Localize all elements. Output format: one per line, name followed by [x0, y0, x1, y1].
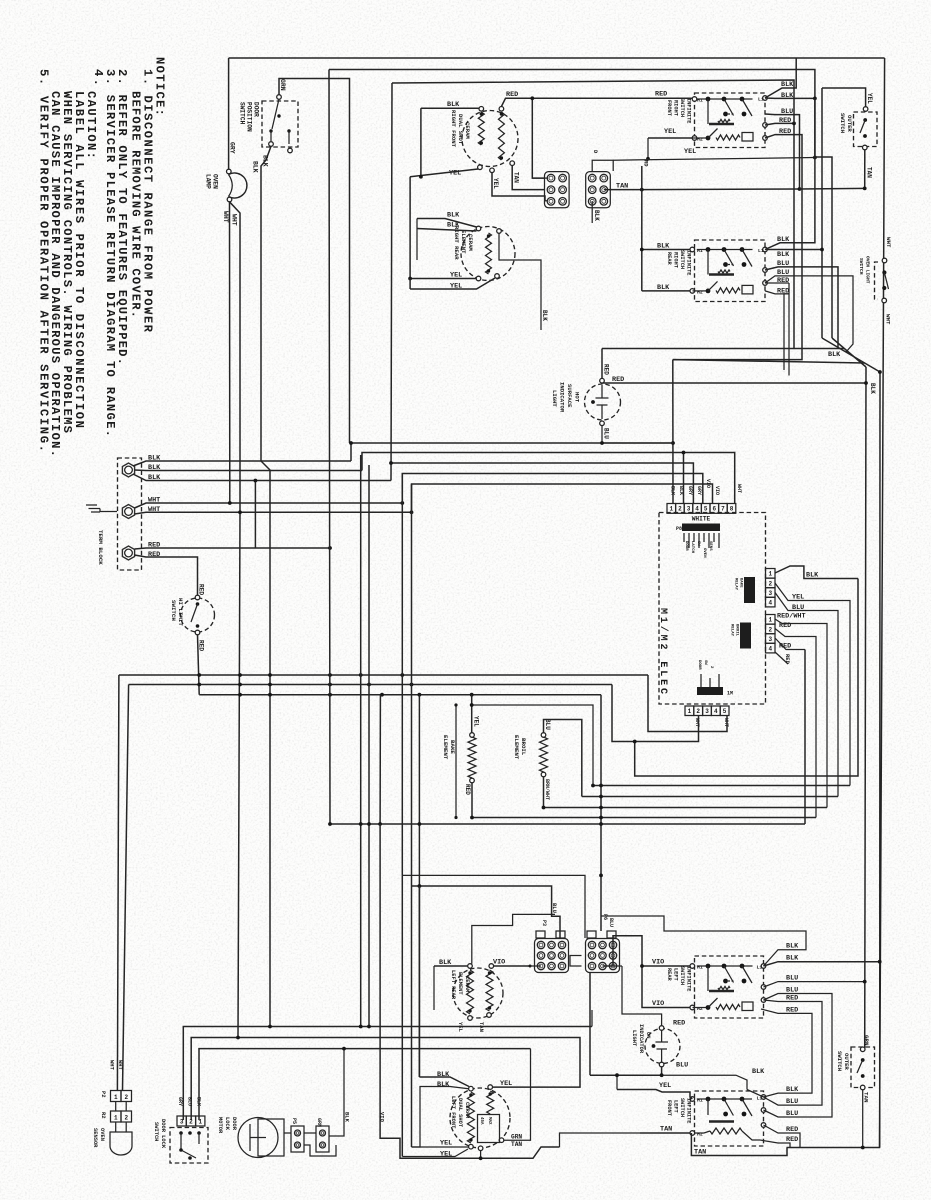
wire VIO to INF LR H2	[642, 966, 690, 1008]
wire hot-ind top Y348	[602, 348, 844, 350]
bake element terminals	[470, 733, 475, 738]
wire vertical X360 down	[360, 455, 362, 1027]
svg-text:CERAM: CERAM	[467, 234, 474, 251]
svg-text:INDICATOR: INDICATOR	[559, 382, 566, 413]
oven sensor body	[110, 1132, 132, 1155]
svg-text:P3: P3	[541, 920, 547, 926]
svg-text:TAN: TAN	[511, 1141, 522, 1148]
motor connector pair 2	[316, 1126, 329, 1152]
wire motor wires	[284, 1132, 291, 1134]
svg-text:3: 3	[768, 636, 772, 643]
svg-text:2: 2	[678, 506, 682, 513]
svg-text:LOCK: LOCK	[224, 1117, 230, 1131]
wire bus to lamp	[228, 58, 230, 169]
svg-text:5: 5	[704, 506, 708, 513]
svg-text:BLK: BLK	[786, 955, 799, 963]
svg-text:DOOR: DOOR	[697, 660, 701, 670]
wire INF LR BLU2	[764, 994, 833, 1047]
svg-text:LAMP: LAMP	[205, 174, 212, 189]
wire right vertical X880 down	[879, 372, 881, 1148]
svg-text:YEL: YEL	[473, 716, 480, 727]
svg-text:YEL: YEL	[457, 1022, 464, 1033]
svg-text:GRY: GRY	[687, 486, 693, 495]
hot indicator terminals	[600, 378, 605, 383]
svg-text:RED: RED	[784, 654, 791, 665]
svg-text:1: 1	[114, 1114, 118, 1121]
wire BLK1 elem RR	[417, 219, 477, 228]
wire BLK elem LR	[434, 965, 468, 967]
wire Y886 line	[412, 886, 561, 938]
svg-text:BLK: BLK	[786, 1086, 799, 1094]
connector grid 1 bottom	[535, 939, 569, 973]
svg-text:DOOR: DOOR	[231, 1117, 237, 1131]
svg-text:1: 1	[669, 506, 673, 513]
svg-text:BROIL: BROIL	[520, 738, 527, 756]
svg-text:VIO: VIO	[652, 959, 664, 967]
svg-text:RED: RED	[777, 277, 789, 285]
wire door-lock run3	[199, 1049, 531, 1120]
junction dots nested	[599, 784, 603, 788]
svg-text:RED: RED	[786, 1006, 798, 1014]
wire WHT1 from bolt2	[135, 503, 403, 508]
wire grid A row1 entry	[532, 177, 548, 179]
svg-text:YEL: YEL	[659, 1082, 671, 1090]
wire BLK2 elem LF	[412, 1087, 469, 1148]
svg-text:CERAM: CERAM	[464, 1102, 470, 1118]
svg-text:RED: RED	[603, 364, 610, 375]
svg-text:MOTOR: MOTOR	[217, 1117, 223, 1134]
wire on-ind top RED	[622, 966, 662, 1026]
wire bottom pin5 loop	[648, 675, 727, 732]
svg-text:HOT: HOT	[574, 392, 581, 403]
svg-text:RED: RED	[198, 584, 205, 595]
element RF coils	[478, 112, 484, 145]
svg-text:BLK: BLK	[148, 464, 161, 472]
svg-text:ELEMENT: ELEMENT	[442, 735, 449, 760]
R2 connector	[111, 1111, 122, 1122]
svg-text:INFINITE: INFINITE	[686, 966, 692, 991]
svg-text:4: 4	[695, 506, 699, 513]
svg-text:LEFT FRONT: LEFT FRONT	[450, 1096, 456, 1129]
motor connector pair 1	[291, 1126, 304, 1152]
svg-text:L1: L1	[758, 248, 764, 254]
svg-text:2: 2	[124, 1094, 128, 1101]
svg-text:WHT: WHT	[109, 1060, 116, 1071]
wire BLK to INF SW RR H1	[642, 249, 691, 251]
svg-text:8: 8	[730, 506, 734, 513]
wire INF RF RED2	[673, 135, 802, 360]
wire VIO elem LR to grid1	[494, 965, 530, 967]
svg-text:TAN: TAN	[866, 167, 873, 178]
svg-text:YEL: YEL	[684, 148, 696, 156]
svg-text:ELEMENT: ELEMENT	[460, 230, 467, 254]
wire vertical X402 down to Y875	[401, 474, 403, 876]
wire bundle L3 Y463 from bus3	[391, 83, 392, 481]
element LF terminals	[469, 1086, 474, 1091]
svg-text:3: 3	[180, 1118, 184, 1125]
svg-text:YEL: YEL	[440, 1140, 452, 1148]
wire vertical X330 bus2 down	[329, 70, 330, 825]
svg-text:RED: RED	[464, 784, 471, 795]
wire YEL H1 stub to BLK line	[616, 1075, 618, 1089]
svg-text:SWITCH: SWITCH	[858, 258, 864, 275]
hot indicator internals	[601, 385, 603, 398]
svg-text:GRN: GRN	[863, 1035, 870, 1046]
ON indicator internals	[661, 1030, 663, 1042]
svg-text:WHT: WHT	[885, 237, 892, 248]
connector bottom pin row	[685, 706, 694, 716]
svg-text:BLK: BLK	[148, 474, 161, 482]
broil element terminals	[541, 733, 546, 738]
svg-text:LIGHT: LIGHT	[631, 1030, 637, 1047]
wire K2 RED diag down	[775, 652, 788, 664]
junction dots bundle	[349, 441, 353, 445]
wire RED1 from bolt3	[135, 548, 331, 549]
svg-text:DOOR: DOOR	[684, 541, 688, 551]
svg-text:BLU: BLU	[676, 1061, 688, 1069]
wire YEL elem RF vertical to right-rear	[409, 177, 411, 280]
wire drop pin1	[672, 360, 674, 504]
svg-text:DUAL SHOT: DUAL SHOT	[457, 1098, 463, 1128]
svg-text:RED: RED	[786, 1126, 798, 1134]
svg-text:OUTER: OUTER	[846, 115, 853, 132]
wire K2 RED2	[775, 638, 805, 650]
svg-text:POSITION: POSITION	[246, 102, 253, 132]
wire BLK3 from bolt1	[133, 474, 391, 481]
wire WHT2 from bolt2	[135, 512, 412, 514]
wire YEL2 elem RF to grid	[492, 173, 545, 201]
svg-text:BLU: BLU	[781, 108, 793, 116]
svg-text:VIO: VIO	[379, 1112, 386, 1123]
ON indicator light circle	[645, 1029, 680, 1064]
svg-text:BLK: BLK	[148, 455, 161, 463]
wire Y875 line	[402, 875, 585, 938]
outer switch bottom terminals	[860, 1047, 865, 1052]
svg-text:BLK: BLK	[437, 1081, 450, 1089]
wire line3 sag to X593	[600, 695, 602, 931]
svg-text:RIGHT: RIGHT	[673, 252, 679, 269]
svg-text:2: 2	[124, 1114, 128, 1121]
svg-text:1M: 1M	[727, 691, 733, 697]
svg-text:SW: SW	[703, 660, 707, 665]
terminal block bolt 2	[122, 505, 134, 519]
wire left vertical X118.9 (line1 start) down to oven sensor	[117, 675, 119, 1090]
svg-text:3: 3	[705, 708, 709, 715]
oven lamp symbol	[229, 173, 247, 198]
wire Y807 line	[544, 807, 828, 809]
svg-text:4: 4	[768, 600, 772, 607]
svg-text:BLK: BLK	[196, 1097, 202, 1106]
wire door-lock run2	[191, 1038, 580, 1121]
svg-text:LEFT REAR: LEFT REAR	[450, 970, 456, 1000]
svg-text:ELEMENT: ELEMENT	[513, 735, 520, 760]
wire TAN elem RF to grid	[512, 166, 545, 190]
wire BLK2 elem RR	[417, 229, 477, 232]
svg-text:6: 6	[712, 506, 716, 513]
svg-text:3: 3	[687, 506, 691, 513]
junction dots mid bus	[197, 673, 201, 677]
wire grid B bottom down	[591, 201, 593, 223]
INF SW LR contacts and heater	[697, 965, 753, 967]
svg-text:BRN/WHT: BRN/WHT	[544, 779, 550, 800]
svg-text:RED: RED	[779, 622, 791, 630]
svg-text:BLU: BLU	[786, 975, 798, 983]
svg-text:OVEN: OVEN	[212, 174, 219, 189]
wire INF RR BLU2	[765, 276, 853, 352]
svg-text:7: 7	[721, 506, 725, 513]
svg-text:BLK: BLK	[541, 310, 548, 321]
wire K2 RED/WHT	[775, 619, 827, 808]
svg-text:BLK: BLK	[781, 81, 794, 89]
wire vertical X402 to bottom	[401, 875, 403, 1156]
wire BLK elem RR right side down	[499, 233, 541, 330]
infinite switch LEFT REAR box	[695, 956, 764, 1018]
svg-text:BLK: BLK	[828, 351, 841, 359]
wire broil top loop	[544, 720, 582, 797]
svg-text:GRN: GRN	[316, 1118, 322, 1127]
svg-text:SENS: SENS	[708, 541, 712, 551]
wire vertical X419 to left-front elem	[418, 886, 420, 1077]
relay pins P5 column	[766, 615, 776, 625]
svg-text:OUTER: OUTER	[843, 1053, 850, 1070]
wire K1 BLU	[775, 593, 838, 797]
wire motor pair2 BLK up	[329, 1049, 344, 1136]
INF SW RR pins	[690, 247, 695, 252]
svg-text:BLK: BLK	[437, 1071, 450, 1079]
element RF terminals	[479, 107, 484, 112]
terminal block bolt 3	[122, 546, 134, 560]
wire P2 to R2	[115, 1102, 117, 1112]
svg-text:2: 2	[768, 580, 772, 587]
connector grid B top	[586, 172, 611, 208]
svg-text:2: 2	[189, 1118, 193, 1125]
svg-text:SENSOR: SENSOR	[92, 1128, 98, 1148]
svg-text:RED: RED	[655, 91, 667, 99]
svg-text:WHT: WHT	[148, 497, 160, 505]
wire YEL elem RF line	[410, 169, 478, 177]
svg-text:RED: RED	[779, 643, 791, 651]
ceram element RIGHT REAR circle	[461, 227, 515, 281]
wire lamp to WHT verticals	[229, 202, 231, 503]
svg-text:BLU: BLU	[187, 1097, 193, 1106]
svg-text:GRY: GRY	[696, 486, 702, 495]
wire INF LR BLK2	[764, 962, 880, 966]
svg-text:TAN: TAN	[694, 1149, 706, 1157]
svg-text:P8: P8	[676, 526, 682, 532]
wire door switch GRN to bus	[279, 79, 350, 444]
wire YEL1 elem LF bottom	[412, 1146, 469, 1148]
svg-text:VIO: VIO	[705, 479, 711, 488]
wire right border (BLK) down to bottom-right	[787, 58, 885, 1148]
hot surface indicator light circle	[585, 384, 621, 420]
svg-text:OVEN LIGHT: OVEN LIGHT	[865, 256, 871, 284]
wire vertical X270 down	[261, 461, 270, 1027]
svg-text:RED: RED	[779, 128, 791, 136]
svg-text:BLU: BLU	[786, 1110, 798, 1118]
INF SW LF contacts and heater	[697, 1098, 752, 1100]
hi limit switch circle	[181, 598, 215, 632]
svg-text:2: 2	[768, 626, 772, 633]
svg-text:BLK: BLK	[678, 486, 684, 495]
wire INF LR BLU1	[764, 982, 865, 987]
svg-text:SWITCH: SWITCH	[679, 966, 685, 985]
door lock switch contacts	[179, 1131, 183, 1135]
wire INF RR RED1	[765, 282, 789, 284]
wire X592 to run1	[591, 1010, 593, 1027]
connector grid A top	[545, 172, 570, 208]
ceram element LEFT REAR circle	[453, 968, 503, 1018]
svg-text:YEL: YEL	[866, 93, 873, 104]
wire X601 into grid2	[599, 874, 603, 878]
svg-text:RED/WHT: RED/WHT	[777, 613, 806, 621]
svg-text:SWITCH: SWITCH	[839, 113, 846, 133]
wire YEL to INF RF H2	[648, 137, 692, 139]
svg-text:BLK: BLK	[781, 92, 794, 100]
wire bake top to line3	[471, 695, 473, 733]
bake element coil	[468, 737, 476, 778]
svg-text:SWITCH: SWITCH	[679, 98, 685, 117]
oven light switch bracket	[875, 262, 879, 299]
hi limit terminals and contacts	[195, 595, 200, 600]
svg-text:2: 2	[696, 708, 700, 715]
svg-text:INFINITE: INFINITE	[686, 250, 692, 275]
svg-text:1: 1	[768, 617, 772, 624]
svg-text:R2: R2	[100, 1112, 107, 1119]
svg-text:5. VERIFY PROPER OPERATION AFT: 5. VERIFY PROPER OPERATION AFTER SERVICI…	[36, 69, 50, 452]
svg-text:4: 4	[768, 646, 772, 653]
terminal block bolt 1	[122, 463, 134, 477]
wire grid B to right bus	[604, 188, 800, 191]
svg-text:RED: RED	[148, 551, 160, 559]
wire INF LF RED2	[760, 1140, 790, 1148]
wire INF RF BLU	[765, 114, 800, 189]
wire left vertical X128.6 down to bottom	[123, 685, 129, 1091]
door position switch terminal GRN	[277, 95, 282, 100]
INF SW RR contacts and heater	[697, 249, 753, 251]
wire grid2 to VIO line	[603, 936, 692, 966]
broil element coil	[540, 737, 548, 772]
ON indicator terminals	[659, 1026, 664, 1031]
svg-text:BAKE: BAKE	[739, 578, 743, 588]
svg-text:BLK: BLK	[252, 161, 259, 173]
INF SW RF contacts and heater	[697, 98, 753, 100]
svg-text:BAKE: BAKE	[449, 740, 456, 754]
svg-text:1: 1	[768, 571, 772, 578]
door lock switch box	[170, 1128, 208, 1164]
element RR terminals	[476, 226, 481, 231]
wire on-ind bottom BLU	[590, 1067, 662, 1075]
svg-text:DOOR: DOOR	[253, 102, 260, 117]
wire Y359 line	[673, 360, 865, 363]
svg-text:SWITCH: SWITCH	[153, 1122, 159, 1141]
svg-text:CERAM: CERAM	[464, 122, 471, 139]
wire mid bus line3	[199, 694, 601, 696]
outer switch (right top) box	[854, 112, 878, 147]
wire INF LR BLK1	[601, 916, 806, 966]
wire Y817 line	[472, 817, 816, 819]
svg-text:BLK: BLK	[593, 210, 600, 221]
svg-text:BLK: BLK	[447, 212, 460, 220]
svg-text:BLK: BLK	[752, 1068, 765, 1076]
wire hot-ind top up	[601, 349, 603, 379]
wire YEL to INF LF H1	[617, 1090, 692, 1100]
wire bake bottom down	[471, 783, 473, 818]
svg-text:BLK: BLK	[869, 383, 876, 394]
P2 connector	[111, 1091, 122, 1102]
svg-text:L1: L1	[757, 965, 763, 971]
junction dots door-lock runs	[236, 1036, 240, 1040]
wire YEL2 elem LF bottom	[402, 1149, 468, 1157]
svg-text:LEFT: LEFT	[673, 1100, 679, 1114]
door position switch contacts	[272, 99, 279, 129]
INF SW LR pins	[690, 964, 695, 969]
wire bundle L2 Y452.5	[362, 453, 735, 505]
wire hot-ind bottom to pin1 vertical	[602, 426, 673, 443]
svg-text:SURFACE: SURFACE	[566, 384, 573, 408]
relay pins P4 column	[766, 569, 776, 579]
svg-text:BLK: BLK	[786, 943, 799, 951]
wire RED2 from bolt3	[135, 555, 198, 595]
wire vertical X255 RED	[254, 481, 256, 549]
svg-text:GRY: GRY	[229, 142, 236, 154]
junction dots terminal lines	[228, 501, 232, 505]
svg-text:TERM BLOCK: TERM BLOCK	[97, 530, 104, 565]
wire mid bus line1	[119, 674, 648, 676]
wire INF RF RED1	[765, 123, 794, 348]
wire crossing diag A	[822, 338, 880, 372]
svg-text:BLK: BLK	[344, 1112, 351, 1123]
svg-text:BLU: BLU	[551, 903, 558, 913]
wire door switch BLK down	[261, 146, 271, 461]
svg-text:BLU: BLU	[777, 260, 789, 268]
wire door-lock run1	[183, 1027, 592, 1121]
svg-text:SWITCH: SWITCH	[836, 1051, 843, 1071]
svg-text:RED: RED	[779, 117, 791, 125]
wire INF RR BLK1 right	[765, 98, 815, 249]
svg-text:GRN: GRN	[279, 79, 286, 91]
wire hi-limit to mid bus line3	[198, 635, 200, 695]
svg-text:YEL: YEL	[492, 178, 499, 189]
INF SW LF coil	[710, 1128, 742, 1134]
svg-text:RED: RED	[612, 376, 624, 384]
wire BLK line Y1075	[589, 972, 591, 1075]
wire bundle L1 Y443	[351, 443, 673, 461]
svg-text:CERAM: CERAM	[464, 976, 470, 992]
svg-text:BLU: BLU	[786, 987, 798, 995]
svg-text:BLU: BLU	[792, 604, 804, 612]
connector grid 2 bottom	[586, 939, 620, 973]
wire bottom pin2 loop	[612, 685, 699, 742]
svg-text:YEL: YEL	[792, 594, 804, 602]
svg-text:P2: P2	[100, 1091, 107, 1098]
element LR terminals	[468, 964, 473, 969]
svg-text:INFINITE: INFINITE	[686, 1098, 692, 1123]
wire grid B top jog	[592, 160, 613, 171]
oven light switch terminals	[882, 258, 887, 263]
wire outer sw bottom down	[864, 150, 866, 189]
wire Y796 line	[582, 796, 838, 798]
svg-text:4: 4	[714, 708, 718, 715]
svg-text:RED: RED	[786, 1136, 798, 1144]
svg-text:WHT: WHT	[885, 314, 892, 325]
grid2 top pins	[587, 931, 596, 938]
wire top bus L1 (BLK)	[229, 57, 885, 59]
wire INF LF BLK	[764, 1066, 813, 1097]
infinite switch RIGHT REAR box	[695, 240, 766, 302]
wire YEL1 elem RR	[410, 278, 476, 280]
P2 block bottom of board	[697, 687, 723, 695]
door lock motor circle	[238, 1118, 278, 1158]
